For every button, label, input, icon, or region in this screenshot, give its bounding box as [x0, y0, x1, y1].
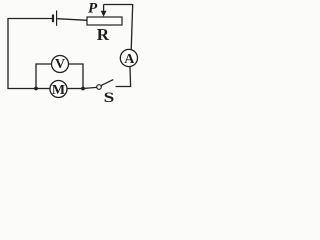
wire right junction to motor: [67, 88, 83, 90]
switch S pivot circle: [97, 85, 102, 90]
rheostat R body: [87, 17, 122, 25]
svg-text:M: M: [52, 83, 65, 98]
switch S lever: [101, 80, 113, 86]
wire left vertical: [7, 19, 9, 89]
battery negative plate (short): [52, 15, 54, 23]
motor M1 circle: [50, 81, 67, 98]
svg-text:S: S: [104, 89, 115, 103]
wire battery to rheostat: [57, 19, 87, 21]
wire voltmeter branch left riser: [36, 64, 52, 89]
svg-text:P: P: [88, 1, 98, 17]
svg-text:V: V: [55, 57, 65, 72]
wire ammeter to bottom corner: [116, 67, 131, 87]
node left junction: [34, 87, 38, 91]
wire motor to left junction: [36, 88, 50, 90]
svg-text:R: R: [97, 25, 110, 44]
ammeter A1 circle: [120, 49, 137, 66]
wire right vertical down to ammeter: [131, 4, 133, 50]
battery positive plate (long): [56, 11, 58, 26]
svg-text:A: A: [124, 52, 135, 67]
wire voltmeter branch right riser: [69, 64, 84, 89]
wire top left horizontal: [7, 18, 52, 20]
slider arrow P shaft: [103, 5, 105, 13]
slider arrow P head: [101, 11, 107, 17]
wire bottom left: [7, 88, 36, 90]
wire slider to top right: [104, 4, 133, 6]
voltmeter V1 circle: [52, 56, 69, 73]
wire switch to right junction: [83, 87, 97, 88]
node right junction: [81, 87, 85, 91]
